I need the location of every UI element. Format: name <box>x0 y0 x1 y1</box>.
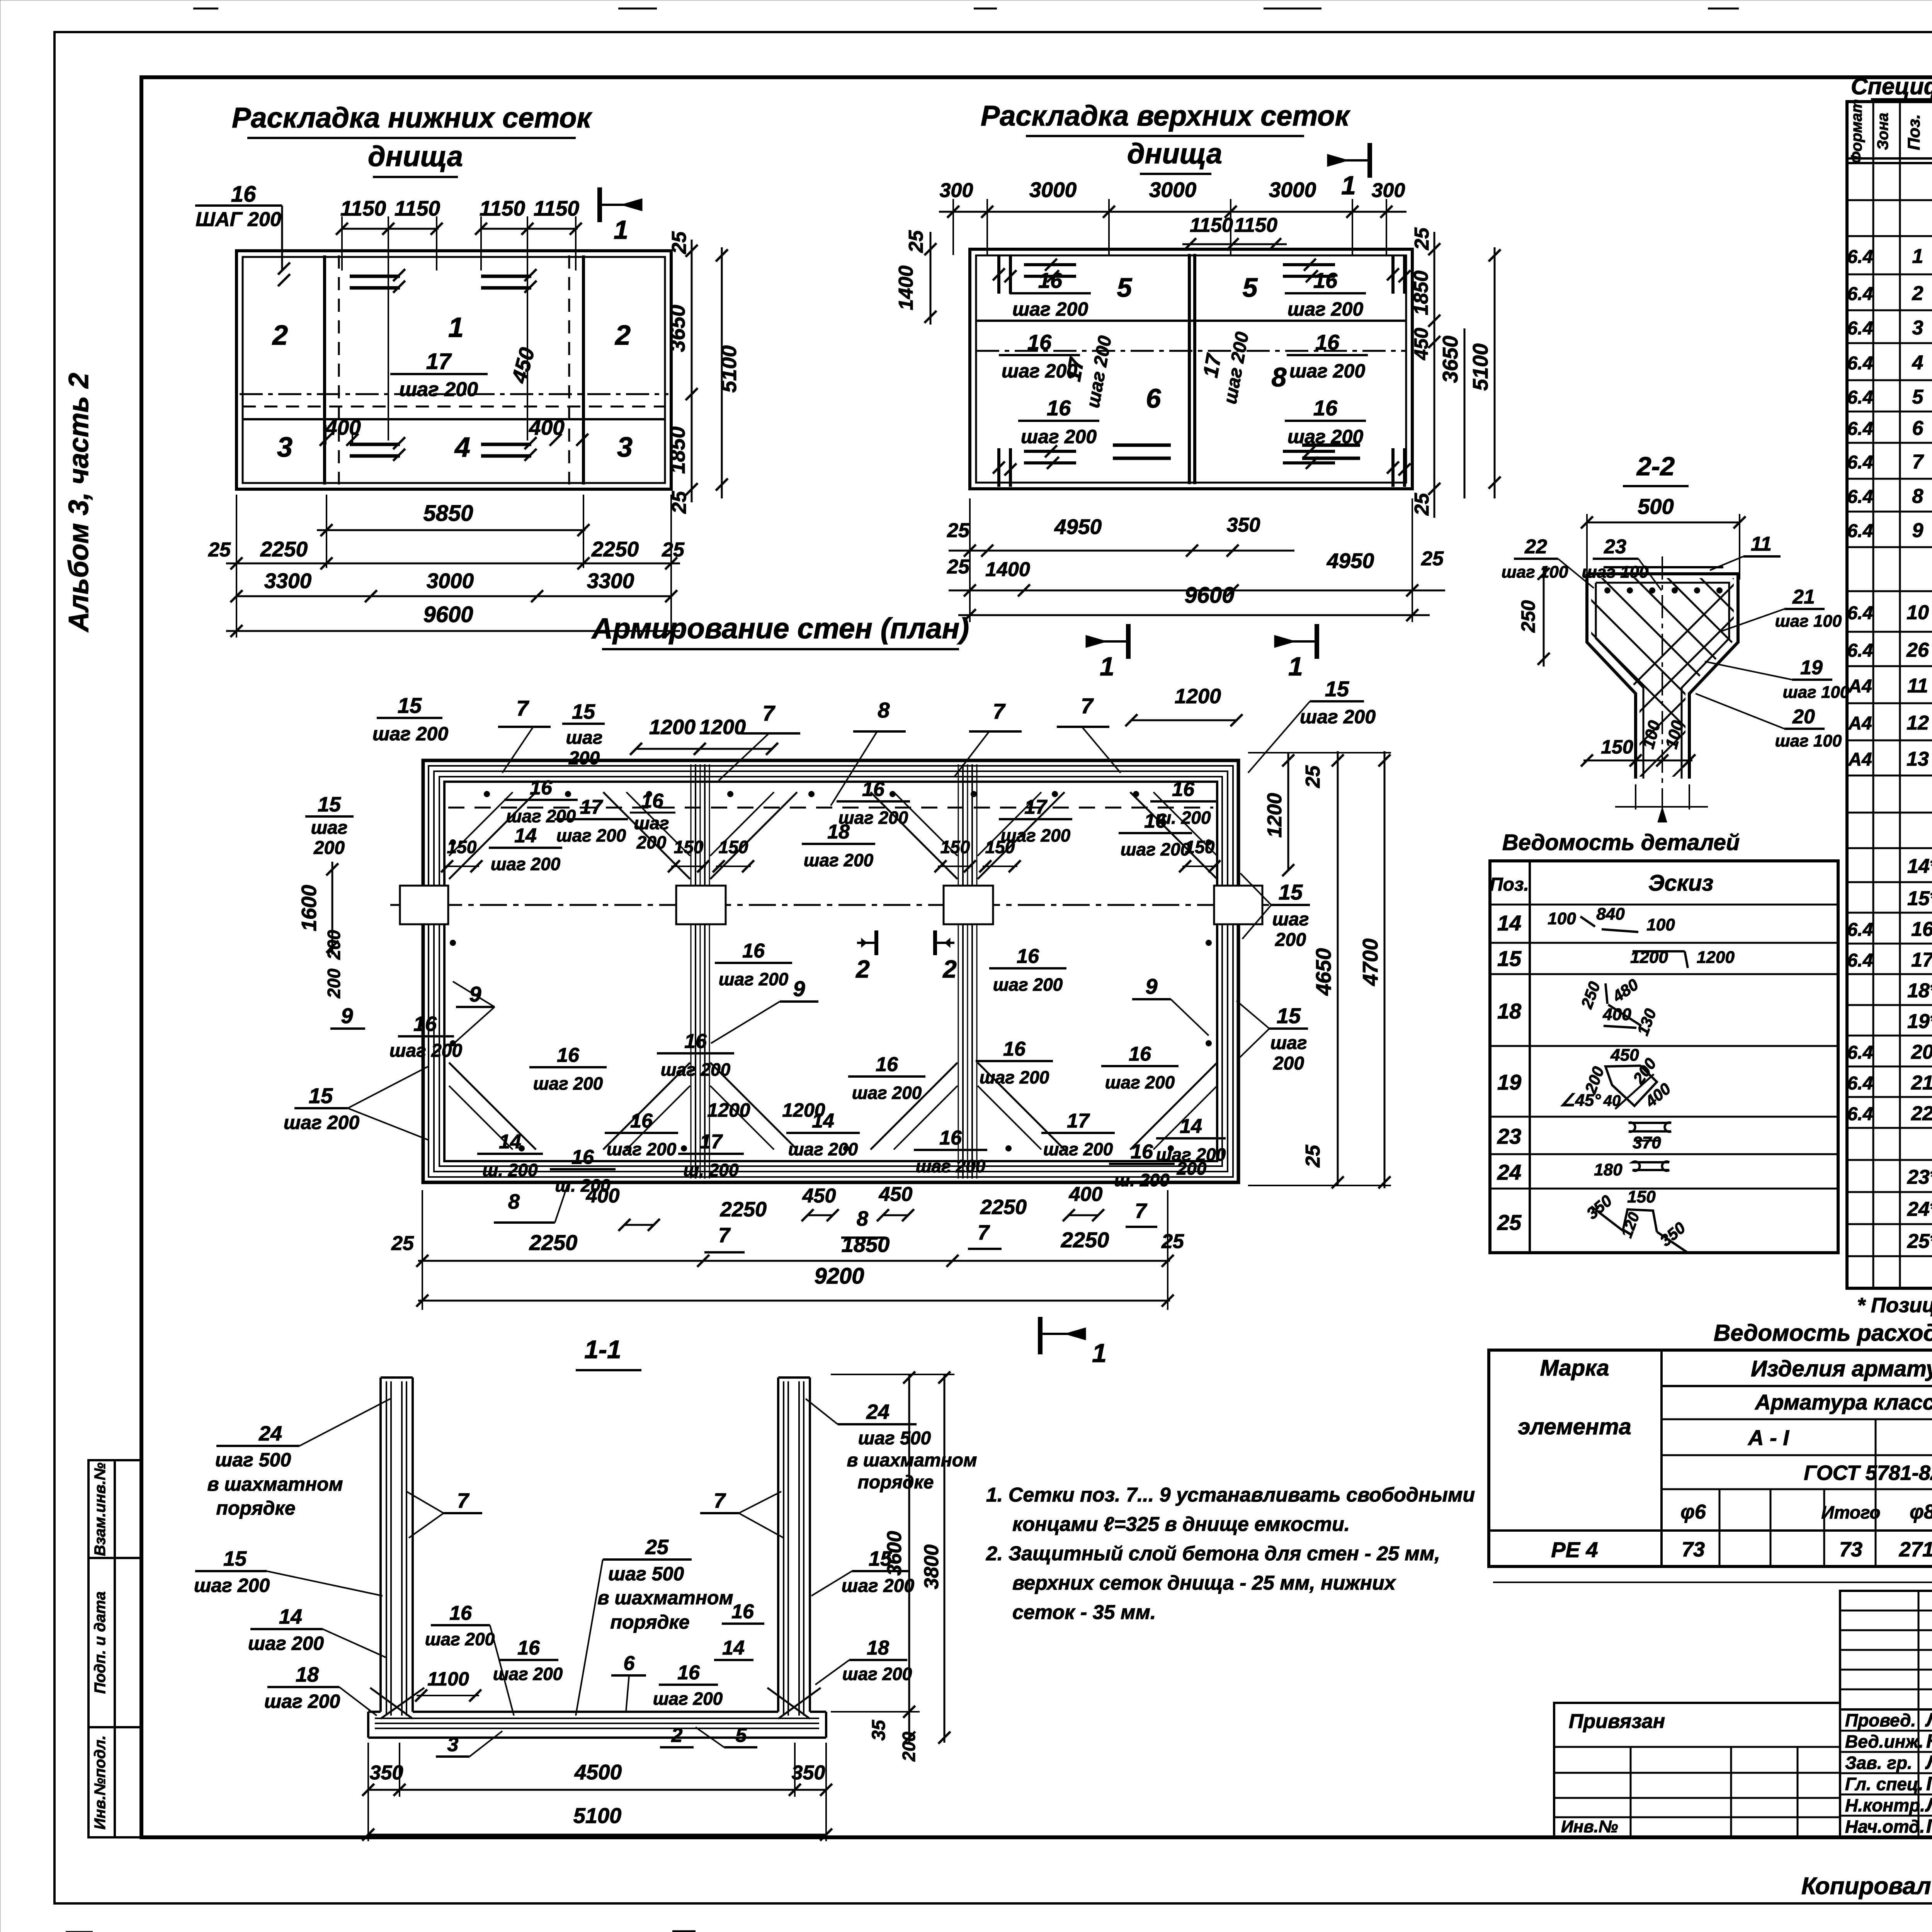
svg-text:Левина: Левина <box>1925 1752 1932 1773</box>
rebar hash marks top <box>350 275 400 278</box>
svg-text:3300: 3300 <box>264 569 312 593</box>
vedomost detaley frame <box>1490 861 1838 1253</box>
2-2 centerline <box>1662 556 1663 796</box>
svg-text:1200: 1200 <box>1697 948 1735 967</box>
svg-text:16: 16 <box>1315 330 1340 354</box>
svg-text:5850: 5850 <box>423 501 473 526</box>
svg-text:2: 2 <box>614 320 631 351</box>
svg-text:шаг 200: шаг 200 <box>1300 706 1376 728</box>
svg-text:ш. 200: ш. 200 <box>683 1160 739 1180</box>
svg-text:шаг 200: шаг 200 <box>372 723 448 745</box>
left attachment box <box>1554 1703 1840 1837</box>
svg-text:Подп. и дата: Подп. и дата <box>92 1592 109 1694</box>
svg-text:73: 73 <box>1839 1538 1862 1561</box>
svg-text:16: 16 <box>876 1053 898 1076</box>
svg-text:200: 200 <box>899 1731 919 1762</box>
svg-text:16: 16 <box>731 1600 754 1623</box>
svg-text:25: 25 <box>1411 227 1433 250</box>
svg-text:25: 25 <box>391 1232 414 1255</box>
svg-text:16: 16 <box>1017 945 1039 968</box>
plan outer rect <box>423 760 1238 1182</box>
svg-text:шаг 200: шаг 200 <box>1043 1139 1113 1159</box>
svg-text:5: 5 <box>1243 272 1258 303</box>
section flag 1 left of title <box>1126 624 1131 659</box>
svg-text:25: 25 <box>1161 1230 1184 1253</box>
svg-text:200: 200 <box>1273 1053 1304 1074</box>
title block staff rows <box>1840 1709 1932 1837</box>
svg-text:шаг 200: шаг 200 <box>1289 360 1365 382</box>
svg-text:16: 16 <box>630 1110 653 1132</box>
svg-text:1: 1 <box>448 312 464 343</box>
svg-text:16: 16 <box>231 182 256 207</box>
svg-text:шаг 200: шаг 200 <box>248 1633 324 1654</box>
svg-text:шаг 100: шаг 100 <box>1775 612 1842 631</box>
cell corner diagonals <box>449 792 536 879</box>
svg-text:6.4: 6.4 <box>1847 641 1873 661</box>
svg-text:4500: 4500 <box>574 1760 622 1784</box>
svg-text:7: 7 <box>1135 1199 1148 1223</box>
svg-text:350: 350 <box>792 1762 825 1784</box>
vertical lines <box>1660 1350 1663 1566</box>
svg-text:Зона: Зона <box>1874 113 1891 150</box>
svg-text:7: 7 <box>1081 694 1094 718</box>
svg-text:Итого: Итого <box>1821 1502 1881 1522</box>
svg-text:450: 450 <box>1610 1046 1639 1065</box>
1-1 section walls <box>381 1376 413 1379</box>
svg-text:21: 21 <box>1911 1072 1932 1094</box>
svg-text:25: 25 <box>668 231 690 254</box>
svg-text:шаг 200: шаг 200 <box>493 1664 563 1684</box>
2-2 section outline <box>1604 566 1723 568</box>
svg-text:7: 7 <box>714 1489 726 1512</box>
svg-text:А4: А4 <box>1848 750 1872 770</box>
svg-text:4650: 4650 <box>1311 948 1335 996</box>
svg-text:150: 150 <box>940 837 970 857</box>
svg-text:шаг 500: шаг 500 <box>608 1563 684 1585</box>
horizontal band line <box>976 320 1406 322</box>
svg-text:17: 17 <box>1911 949 1932 971</box>
svg-text:16: 16 <box>684 1030 707 1053</box>
svg-text:шаг 200: шаг 200 <box>842 1576 915 1596</box>
separator line below table <box>1493 1582 1932 1583</box>
svg-text:1: 1 <box>1288 652 1303 681</box>
svg-text:шаг 200: шаг 200 <box>980 1067 1049 1087</box>
svg-text:порядке: порядке <box>858 1472 934 1493</box>
svg-text:350: 350 <box>1227 514 1260 536</box>
svg-text:шаг 100: шаг 100 <box>1775 731 1842 750</box>
drawing 1 plan rect <box>236 251 671 489</box>
svg-text:1. Сетки поз. 7... 9 устанавли: 1. Сетки поз. 7... 9 устанавливать свобо… <box>986 1484 1475 1506</box>
svg-text:6: 6 <box>624 1652 635 1675</box>
svg-text:в шахматном: в шахматном <box>847 1450 977 1471</box>
svg-text:16: 16 <box>1313 268 1338 293</box>
svg-text:1150: 1150 <box>1190 214 1233 236</box>
svg-text:16: 16 <box>677 1662 700 1684</box>
svg-text:φ6: φ6 <box>1680 1501 1706 1523</box>
svg-text:шаг 200: шаг 200 <box>661 1060 731 1080</box>
svg-text:16: 16 <box>939 1127 962 1149</box>
section flag 1 bottom drawing 2 <box>1315 624 1319 659</box>
svg-text:19: 19 <box>1497 1070 1521 1094</box>
svg-text:24: 24 <box>866 1400 889 1423</box>
svg-text:14: 14 <box>279 1605 302 1628</box>
svg-text:200: 200 <box>636 832 667 852</box>
svg-text:5100: 5100 <box>717 345 741 393</box>
svg-text:днища: днища <box>368 140 463 172</box>
svg-text:14: 14 <box>514 825 537 847</box>
svg-text:25: 25 <box>947 519 970 542</box>
svg-text:4950: 4950 <box>1054 515 1102 539</box>
svg-text:15: 15 <box>572 700 595 723</box>
svg-text:ш. 200: ш. 200 <box>1155 808 1211 828</box>
svg-text:Ведомость деталей: Ведомость деталей <box>1502 830 1740 855</box>
svg-text:1150: 1150 <box>395 196 440 220</box>
horizontal lines <box>240 393 668 395</box>
svg-text:16: 16 <box>641 790 664 812</box>
svg-text:Зав. гр.: Зав. гр. <box>1845 1753 1912 1773</box>
svg-text:3: 3 <box>277 432 293 463</box>
svg-text:8: 8 <box>878 698 890 722</box>
vedomost rashoda frame <box>1489 1350 1932 1566</box>
svg-text:16: 16 <box>862 778 885 801</box>
svg-text:9: 9 <box>793 976 805 1001</box>
svg-text:12: 12 <box>1906 712 1929 734</box>
svg-text:23: 23 <box>1497 1124 1521 1148</box>
svg-text:1200: 1200 <box>707 1099 750 1121</box>
svg-text:Привязан: Привязан <box>1569 1710 1665 1733</box>
svg-text:Инв.№подл.: Инв.№подл. <box>92 1735 109 1830</box>
svg-text:шаг 100: шаг 100 <box>1582 563 1649 582</box>
svg-text:концами ℓ=325 в днище емкос: концами ℓ=325 в днище емкости. <box>1012 1513 1350 1536</box>
svg-text:16: 16 <box>530 777 553 799</box>
svg-text:6.4: 6.4 <box>1847 318 1873 339</box>
svg-text:3: 3 <box>617 432 633 463</box>
svg-text:6.4: 6.4 <box>1847 284 1873 304</box>
svg-text:18: 18 <box>827 821 850 843</box>
wall pilasters <box>400 886 448 924</box>
svg-text:25: 25 <box>208 539 231 561</box>
slab <box>368 1711 381 1713</box>
svg-text:25: 25 <box>1421 548 1444 570</box>
svg-text:14: 14 <box>1497 911 1521 935</box>
svg-text:16: 16 <box>1047 396 1071 420</box>
svg-text:16: 16 <box>571 1146 594 1168</box>
svg-text:Инв.№: Инв.№ <box>1561 1817 1618 1836</box>
internal vertical walls <box>323 255 326 485</box>
svg-text:11: 11 <box>1907 675 1928 697</box>
svg-text:25: 25 <box>1302 765 1324 788</box>
svg-text:6.4: 6.4 <box>1847 388 1873 408</box>
svg-text:Н.контр.: Н.контр. <box>1845 1795 1925 1815</box>
svg-text:840: 840 <box>1596 905 1625 923</box>
rebar dots <box>484 791 490 797</box>
svg-text:15: 15 <box>1325 677 1349 701</box>
1-1 right dims <box>908 1374 910 1743</box>
svg-text:Копировал Исаева: Копировал Исаева <box>1801 1873 1932 1900</box>
horizontal lines <box>1662 1385 1932 1387</box>
svg-text:17: 17 <box>1024 796 1048 818</box>
svg-text:шаг 100: шаг 100 <box>1502 563 1568 582</box>
svg-text:сеток - 35 мм.: сеток - 35 мм. <box>1012 1601 1156 1624</box>
svg-text:200: 200 <box>324 968 344 998</box>
section flag 1 top right <box>1367 143 1372 178</box>
svg-text:в шахматном: в шахматном <box>207 1473 343 1495</box>
svg-text:7: 7 <box>993 699 1006 723</box>
svg-text:2250: 2250 <box>591 537 639 561</box>
svg-text:9: 9 <box>469 982 481 1006</box>
svg-text:9600: 9600 <box>1184 583 1234 608</box>
svg-text:шаг 200: шаг 200 <box>425 1629 495 1649</box>
svg-text:19: 19 <box>1800 656 1823 679</box>
svg-text:300: 300 <box>1372 179 1405 202</box>
svg-text:1: 1 <box>1100 652 1114 681</box>
svg-text:14*: 14* <box>1907 855 1932 878</box>
title block small grid <box>1840 1591 1932 1709</box>
svg-text:20: 20 <box>1792 706 1815 728</box>
svg-text:500: 500 <box>1638 494 1673 519</box>
svg-text:25: 25 <box>1302 1145 1324 1168</box>
svg-text:300: 300 <box>940 179 973 202</box>
svg-text:16: 16 <box>1129 1043 1151 1065</box>
drawing 2 plan rect <box>970 249 1412 489</box>
svg-text:15: 15 <box>869 1547 892 1570</box>
svg-text:1-1: 1-1 <box>584 1335 621 1364</box>
svg-text:1: 1 <box>1912 245 1923 268</box>
svg-text:2. Защитный слой бетона для ст: 2. Защитный слой бетона для стен - 25 мм… <box>986 1543 1440 1565</box>
svg-text:5: 5 <box>736 1724 747 1747</box>
svg-text:Армирование стен (план): Армирование стен (план) <box>591 612 969 645</box>
svg-text:100: 100 <box>1646 915 1675 934</box>
svg-text:6.4: 6.4 <box>1847 1073 1873 1094</box>
svg-text:шаг 200: шаг 200 <box>1012 298 1088 320</box>
svg-text:6.4: 6.4 <box>1847 452 1873 473</box>
svg-text:шаг 200: шаг 200 <box>788 1139 858 1159</box>
svg-text:6.4: 6.4 <box>1847 419 1873 439</box>
svg-text:18: 18 <box>867 1637 889 1659</box>
svg-text:17: 17 <box>1067 1110 1090 1132</box>
svg-text:25: 25 <box>645 1536 669 1559</box>
section flag bottom right <box>1038 1317 1043 1354</box>
svg-text:8: 8 <box>857 1207 868 1230</box>
centerline <box>390 904 1271 906</box>
wall base diagonals <box>381 1688 424 1719</box>
svg-text:шаг 200: шаг 200 <box>533 1073 603 1094</box>
svg-text:шаг: шаг <box>311 818 348 838</box>
svg-text:3300: 3300 <box>587 569 634 593</box>
svg-text:6.4: 6.4 <box>1847 521 1873 541</box>
2-2 dots <box>1604 587 1611 594</box>
svg-text:шаг 200: шаг 200 <box>607 1139 677 1159</box>
svg-text:24: 24 <box>259 1422 282 1445</box>
svg-text:17: 17 <box>700 1131 723 1153</box>
svg-text:2: 2 <box>1912 282 1923 305</box>
mesh dashed line top <box>448 807 1213 809</box>
svg-text:1200: 1200 <box>699 716 746 739</box>
section 2 flags <box>874 930 878 955</box>
svg-text:16: 16 <box>1911 918 1932 940</box>
svg-text:16: 16 <box>413 1012 437 1036</box>
svg-text:порядке: порядке <box>216 1497 295 1519</box>
svg-text:400: 400 <box>586 1185 620 1207</box>
interior wall 2 <box>958 764 959 1179</box>
svg-text:3650: 3650 <box>1438 335 1462 383</box>
svg-text:1: 1 <box>614 215 628 245</box>
svg-text:6.4: 6.4 <box>1847 247 1873 267</box>
svg-text:370: 370 <box>1633 1133 1661 1152</box>
svg-text:1600: 1600 <box>298 885 321 931</box>
svg-text:А - I: А - I <box>1747 1425 1789 1450</box>
svg-text:1850: 1850 <box>842 1232 890 1257</box>
svg-text:шаг 200: шаг 200 <box>1021 426 1097 447</box>
svg-text:6.4: 6.4 <box>1847 603 1873 624</box>
svg-text:15: 15 <box>318 793 341 816</box>
svg-text:Ведомость расхода стали: Ведомость расхода стали на элемент , кг <box>1714 1320 1932 1346</box>
svg-text:6.4: 6.4 <box>1847 920 1873 940</box>
svg-text:23: 23 <box>1604 536 1626 558</box>
svg-text:шаг 200: шаг 200 <box>653 1689 723 1709</box>
svg-text:шаг 200: шаг 200 <box>842 1664 912 1684</box>
svg-text:ш. 200: ш. 200 <box>482 1160 538 1180</box>
svg-text:25: 25 <box>905 230 927 253</box>
svg-text:25*: 25* <box>1907 1230 1932 1253</box>
svg-text:1150: 1150 <box>480 196 526 220</box>
svg-text:1200: 1200 <box>1264 793 1286 838</box>
svg-text:Раскладка нижних сеток: Раскладка нижних сеток <box>232 102 592 134</box>
svg-text:шаг 200: шаг 200 <box>491 854 561 874</box>
svg-text:3: 3 <box>1912 317 1923 339</box>
svg-text:20: 20 <box>1911 1041 1932 1063</box>
svg-text:26: 26 <box>1906 639 1929 662</box>
svg-text:4700: 4700 <box>1358 938 1382 986</box>
svg-text:3: 3 <box>447 1733 459 1756</box>
svg-text:5: 5 <box>1117 272 1133 303</box>
svg-text:1: 1 <box>1341 171 1356 200</box>
left margin stamp boxes <box>88 1460 141 1837</box>
svg-text:5100: 5100 <box>573 1803 622 1828</box>
svg-text:15: 15 <box>398 693 422 718</box>
svg-text:7: 7 <box>516 696 529 720</box>
svg-text:8: 8 <box>1912 485 1923 508</box>
svg-text:8: 8 <box>1272 362 1287 392</box>
svg-text:ш. 200: ш. 200 <box>1114 1170 1170 1190</box>
svg-text:16: 16 <box>742 940 765 962</box>
svg-text:* Позиции 14, 15, 18, 19, 23÷2: * Позиции 14, 15, 18, 19, 23÷25 см. ведо… <box>1857 1294 1932 1317</box>
svg-text:в шахматном: в шахматном <box>597 1587 733 1609</box>
svg-text:6.4: 6.4 <box>1847 1104 1873 1124</box>
svg-text:Раскладка верхних сеток: Раскладка верхних сеток <box>981 100 1351 132</box>
svg-text:180: 180 <box>1594 1160 1622 1179</box>
svg-text:2: 2 <box>855 955 870 983</box>
svg-text:18*: 18* <box>1907 980 1932 1002</box>
svg-text:16: 16 <box>1172 778 1195 801</box>
svg-text:150: 150 <box>447 837 477 857</box>
svg-text:15: 15 <box>1497 946 1522 971</box>
section flag 1 top <box>597 187 602 222</box>
svg-text:шаг 200: шаг 200 <box>1105 1072 1175 1092</box>
svg-text:11: 11 <box>1751 533 1772 555</box>
svg-text:10: 10 <box>1906 602 1929 624</box>
svg-text:шаг 200: шаг 200 <box>284 1112 359 1133</box>
svg-text:Вед.инж.: Вед.инж. <box>1845 1731 1923 1752</box>
svg-text:18: 18 <box>1497 999 1522 1023</box>
svg-text:6.4: 6.4 <box>1847 487 1873 507</box>
svg-text:9: 9 <box>1145 974 1157 998</box>
svg-text:3000: 3000 <box>1269 178 1316 202</box>
svg-text:9200: 9200 <box>814 1264 864 1289</box>
svg-text:25: 25 <box>1497 1210 1522 1235</box>
svg-text:шаг: шаг <box>566 728 603 748</box>
svg-text:15: 15 <box>1279 880 1303 904</box>
svg-text:Спецификация к монолитной: Спецификация к монолитной емкости РЕ 4 <box>1851 73 1932 99</box>
svg-text:200: 200 <box>1275 930 1306 950</box>
svg-text:7: 7 <box>762 701 776 725</box>
svg-text:Гл. спец.: Гл. спец. <box>1845 1774 1923 1794</box>
svg-text:Пронин: Пронин <box>1926 1773 1932 1794</box>
svg-text:16: 16 <box>557 1044 580 1066</box>
svg-text:9: 9 <box>1912 519 1923 542</box>
svg-text:7: 7 <box>718 1224 731 1247</box>
sketch row 23 <box>1629 1122 1671 1132</box>
svg-text:7: 7 <box>1912 451 1924 473</box>
svg-text:22: 22 <box>1911 1102 1932 1125</box>
svg-text:1150: 1150 <box>534 196 580 220</box>
svg-text:шаг 200: шаг 200 <box>506 806 576 826</box>
svg-text:3650: 3650 <box>665 304 689 352</box>
svg-text:100: 100 <box>1548 909 1576 928</box>
svg-text:450: 450 <box>879 1183 913 1206</box>
svg-text:4: 4 <box>454 432 470 463</box>
svg-text:2250: 2250 <box>260 537 308 561</box>
svg-text:25: 25 <box>1411 493 1433 516</box>
svg-text:Изделия арматурные: Изделия арматурные <box>1751 1356 1932 1381</box>
svg-text:200: 200 <box>324 930 344 960</box>
svg-text:25: 25 <box>947 556 970 578</box>
svg-text:5100: 5100 <box>1468 343 1492 391</box>
right dims drawing 2 <box>1434 232 1435 518</box>
interior wall 1 <box>690 764 692 1179</box>
svg-text:150: 150 <box>1185 837 1215 857</box>
svg-text:2250: 2250 <box>720 1198 767 1221</box>
svg-text:Эскиз: Эскиз <box>1648 871 1713 896</box>
svg-text:16: 16 <box>517 1637 540 1659</box>
svg-text:ШАГ 200: ШАГ 200 <box>196 208 281 231</box>
svg-text:шаг 200: шаг 200 <box>719 969 789 989</box>
svg-text:18: 18 <box>296 1663 319 1686</box>
svg-text:16: 16 <box>1131 1141 1153 1163</box>
svg-text:Левина: Левина <box>1925 1709 1932 1731</box>
svg-text:шаг 100: шаг 100 <box>1783 683 1850 702</box>
svg-text:4950: 4950 <box>1327 549 1374 573</box>
svg-text:6.4: 6.4 <box>1847 951 1873 971</box>
svg-text:150: 150 <box>1627 1187 1656 1206</box>
svg-text:днища: днища <box>1127 138 1222 170</box>
svg-text:шаг 200: шаг 200 <box>399 378 478 401</box>
svg-text:7: 7 <box>978 1221 990 1244</box>
svg-text:Марка: Марка <box>1540 1355 1609 1381</box>
svg-text:6.4: 6.4 <box>1847 353 1873 374</box>
spec table frame <box>1847 102 1932 1288</box>
svg-text:2: 2 <box>272 320 288 351</box>
svg-text:16: 16 <box>1313 396 1338 420</box>
svg-text:400: 400 <box>1069 1183 1103 1206</box>
svg-text:8: 8 <box>508 1190 520 1213</box>
svg-text:φ8: φ8 <box>1910 1501 1932 1523</box>
svg-text:1850: 1850 <box>1410 270 1432 315</box>
svg-text:3000: 3000 <box>1029 178 1077 202</box>
svg-text:21: 21 <box>1792 586 1815 608</box>
svg-text:19*: 19* <box>1907 1010 1932 1033</box>
svg-text:1: 1 <box>1092 1338 1107 1368</box>
